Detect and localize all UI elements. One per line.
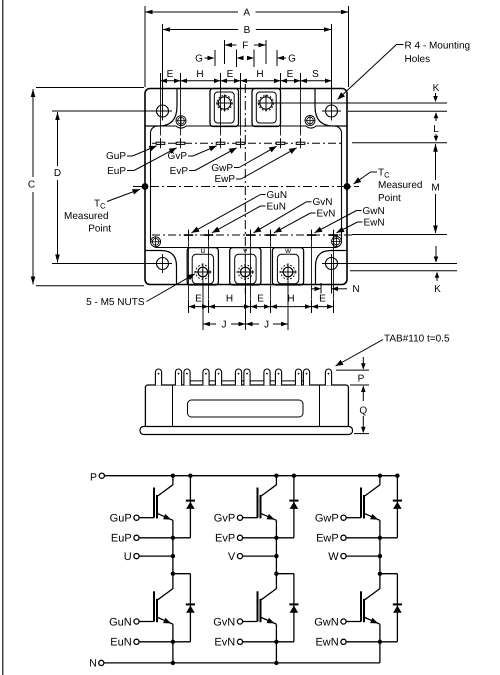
diode DvP <box>293 476 295 538</box>
side view raised lid edge <box>185 380 309 382</box>
diode DwP <box>396 476 398 538</box>
diode DwN <box>396 574 398 642</box>
IGBT QvN <box>243 621 258 623</box>
pin pad EvN <box>266 234 275 236</box>
case screw bottom-left <box>151 237 161 247</box>
dimension G right <box>276 50 278 66</box>
diode DuP <box>189 476 191 538</box>
svg-text:EvP: EvP <box>170 166 189 177</box>
svg-text:N: N <box>89 658 97 670</box>
svg-text:5 - M5 NUTS: 5 - M5 NUTS <box>86 297 145 308</box>
pin pad EuN <box>204 234 213 236</box>
IGBT QvP <box>243 517 258 519</box>
N pad extension lines <box>188 240 190 299</box>
bottom-left mounting flange <box>145 251 177 285</box>
pin pad EwP <box>296 142 305 144</box>
svg-text:B: B <box>244 25 251 36</box>
svg-text:EwP: EwP <box>214 174 235 185</box>
side view case <box>145 385 348 432</box>
wire collector GwP <box>379 476 381 485</box>
wire output node V <box>275 556 277 574</box>
svg-text:GvP: GvP <box>168 151 188 162</box>
side view baseplate <box>140 427 353 435</box>
svg-text:GvN: GvN <box>313 197 333 208</box>
wire diode to emitter <box>173 537 191 539</box>
svg-text:Point: Point <box>378 193 401 204</box>
svg-text:GuN: GuN <box>267 190 288 201</box>
N-side control pin centerline <box>152 234 352 236</box>
svg-text:K: K <box>434 284 441 295</box>
Tc point left <box>142 183 149 190</box>
svg-text:E: E <box>167 69 174 80</box>
svg-text:EuN: EuN <box>110 637 131 649</box>
svg-text:Point: Point <box>88 224 111 235</box>
wire output node U <box>172 556 174 574</box>
dimension N <box>320 283 322 294</box>
svg-text:M: M <box>431 183 439 194</box>
svg-text:H: H <box>256 69 263 80</box>
vertical centerline <box>244 84 246 294</box>
svg-text:EuP: EuP <box>111 533 132 545</box>
pin pad EwN <box>329 234 338 236</box>
dimension B <box>162 24 164 104</box>
svg-text:GwP: GwP <box>211 163 233 174</box>
svg-text:R 4 - Mounting: R 4 - Mounting <box>405 40 471 51</box>
pin pad GwP <box>276 142 285 144</box>
svg-text:W: W <box>328 551 339 563</box>
pin pad GwN <box>307 234 316 236</box>
module body outline (top view) <box>145 89 347 285</box>
diode DuN <box>189 574 191 642</box>
bottom-right mounting flange <box>316 251 348 285</box>
svg-text:K: K <box>433 83 440 94</box>
top-right mounting flange <box>315 89 347 127</box>
svg-text:H: H <box>196 69 203 80</box>
dimension P side <box>336 369 369 371</box>
page border fragment <box>2 0 4 675</box>
case screw bottom-right <box>332 237 342 247</box>
dimension D <box>52 110 172 112</box>
svg-text:C: C <box>28 180 35 191</box>
svg-text:V: V <box>228 551 236 563</box>
svg-text:J: J <box>264 320 269 331</box>
wire emitter EwP <box>379 520 381 538</box>
svg-text:A: A <box>243 8 250 19</box>
pin pad GuP <box>156 142 165 144</box>
side view label recess <box>188 400 304 417</box>
center gap dimension <box>236 50 238 68</box>
pin pad GuN <box>184 234 193 236</box>
dimension J right <box>246 323 260 325</box>
case screw top-right <box>305 116 315 126</box>
screw center extension lines <box>202 281 204 330</box>
wire collector GuP <box>172 476 174 485</box>
P-side control pin centerline <box>152 142 341 144</box>
svg-text:F: F <box>242 41 248 52</box>
svg-text:P: P <box>358 373 365 384</box>
svg-text:U: U <box>124 551 132 563</box>
svg-text:E: E <box>287 69 294 80</box>
diode DvN <box>293 574 295 642</box>
svg-text:Holes: Holes <box>405 54 431 65</box>
svg-text:GwP: GwP <box>315 513 339 525</box>
pin pad EuP <box>176 142 185 144</box>
wire diode tap lower <box>276 573 294 575</box>
dimension J left <box>203 323 216 325</box>
svg-text:J: J <box>222 320 227 331</box>
svg-text:G: G <box>288 53 296 64</box>
svg-text:u: u <box>201 246 205 255</box>
svg-text:S: S <box>312 69 319 80</box>
dimension K bottom <box>435 272 440 278</box>
P power terminal block <box>210 89 239 127</box>
dimension row E H E H E S <box>160 73 162 88</box>
mounting hole bottom-right <box>326 258 338 270</box>
svg-text:EwN: EwN <box>364 217 385 228</box>
V output terminal block <box>230 248 261 285</box>
lid outline <box>151 126 342 248</box>
dimension F <box>224 40 226 64</box>
mounting hole top-left <box>157 105 169 117</box>
svg-text:EwP: EwP <box>316 533 339 545</box>
right extension lines <box>267 102 448 104</box>
dimension L <box>434 112 439 118</box>
svg-text:TAB#110 t=0.5: TAB#110 t=0.5 <box>384 334 450 345</box>
svg-text:L: L <box>433 124 439 135</box>
N terminal screw <box>260 97 272 109</box>
svg-text:E: E <box>227 69 234 80</box>
pin pad EvP <box>236 142 245 144</box>
svg-text:E: E <box>319 294 326 305</box>
svg-text:EuP: EuP <box>107 166 126 177</box>
U output terminal block <box>187 248 218 285</box>
wire collector GvP <box>275 476 277 485</box>
svg-text:GvN: GvN <box>213 616 235 628</box>
IGBT QwP <box>346 517 361 519</box>
P terminal screw <box>218 97 230 109</box>
IGBT QwN <box>346 621 361 623</box>
pad column extension lines <box>160 89 162 136</box>
svg-text:EvN: EvN <box>317 208 336 219</box>
svg-text:Q: Q <box>359 406 367 417</box>
IGBT QuP <box>139 517 154 519</box>
wire diode tap lower <box>173 573 191 575</box>
dimension M <box>433 144 438 152</box>
svg-text:P: P <box>90 472 97 484</box>
svg-text:w: w <box>284 246 291 255</box>
terminal tabs <box>155 369 161 385</box>
svg-text:D: D <box>54 168 61 179</box>
wire diode tap lower <box>380 573 398 575</box>
mounting hole top-right <box>326 105 338 117</box>
wire emitter EvP <box>275 520 277 538</box>
top-left mounting flange <box>145 89 177 127</box>
dimension A <box>144 6 146 87</box>
svg-text:GuN: GuN <box>109 616 132 628</box>
svg-text:EuN: EuN <box>267 201 286 212</box>
svg-text:GwN: GwN <box>314 616 339 628</box>
case screw top-left <box>176 116 186 126</box>
svg-text:GuP: GuP <box>106 151 126 162</box>
horizontal centerline with Tc points <box>133 186 359 188</box>
Tc point right <box>344 183 351 190</box>
N power terminal block <box>252 89 281 127</box>
pin pad GvP <box>216 142 225 144</box>
W output terminal block <box>272 248 303 285</box>
svg-text:GwN: GwN <box>363 206 385 217</box>
side view molded section edges <box>172 385 174 427</box>
IGBT QuN <box>139 621 154 623</box>
svg-text:N: N <box>352 284 359 295</box>
svg-text:Measured: Measured <box>378 180 422 191</box>
svg-text:E: E <box>195 294 202 305</box>
svg-text:GvP: GvP <box>214 513 235 525</box>
arrow to hole row <box>435 246 437 262</box>
svg-text:EvP: EvP <box>215 533 235 545</box>
svg-text:EvN: EvN <box>214 637 235 649</box>
wire diode to emitter <box>380 537 398 539</box>
svg-text:EwN: EwN <box>315 637 338 649</box>
svg-text:Measured: Measured <box>64 211 108 222</box>
mounting hole bottom-left <box>157 258 169 270</box>
svg-text:G: G <box>195 53 203 64</box>
wire diode to emitter <box>276 537 294 539</box>
svg-text:E: E <box>257 294 264 305</box>
wire emitter EuP <box>172 520 174 538</box>
pin pad GvN <box>246 234 255 236</box>
svg-text:H: H <box>226 294 233 305</box>
svg-text:GuP: GuP <box>110 513 132 525</box>
wire output node W <box>379 556 381 574</box>
dimension Q side <box>361 386 366 393</box>
dimension C <box>36 87 144 89</box>
